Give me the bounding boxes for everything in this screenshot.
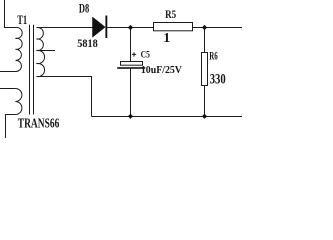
resistor R5 body xyxy=(154,23,193,31)
wire primary-1 top lead xyxy=(5,0,16,28)
capacitor C5 negative plate xyxy=(117,67,145,69)
svg-text:TRANS66: TRANS66 xyxy=(18,117,60,132)
wire R5 right side to R6 node and rail end xyxy=(193,27,242,29)
svg-text:T1: T1 xyxy=(17,13,27,27)
transformer T1 primary winding 1 xyxy=(16,27,23,71)
wire primary-2 top lead xyxy=(0,88,15,90)
capacitor C5 positive plate xyxy=(121,62,143,66)
wire secondary top lead to diode anode xyxy=(37,27,93,29)
label plus sign C5 polarity xyxy=(132,52,136,56)
transformer T1 primary winding 2 xyxy=(15,89,22,115)
junction dot R6 bottom node xyxy=(202,114,207,119)
junction dot R6 top node xyxy=(202,25,207,30)
svg-text:R6: R6 xyxy=(209,49,218,63)
wire ground rail bottom xyxy=(92,116,243,118)
wire C5 bottom lead xyxy=(130,69,132,117)
diode D8 triangle xyxy=(93,17,106,37)
junction dot C5 bottom node xyxy=(128,114,133,119)
wire R6 top lead xyxy=(204,28,206,53)
wire secondary center tap stub xyxy=(37,50,56,52)
svg-text:1: 1 xyxy=(163,31,170,46)
svg-text:R5: R5 xyxy=(165,7,176,21)
transformer core line left xyxy=(29,25,31,115)
wire secondary bottom lead down to ground rail xyxy=(37,77,92,117)
wire R6 bottom lead xyxy=(204,86,206,117)
transformer T1 secondary winding xyxy=(37,27,45,76)
svg-text:5818: 5818 xyxy=(77,38,98,50)
svg-text:10uF/25V: 10uF/25V xyxy=(141,64,182,76)
wire C5 top lead xyxy=(130,28,132,62)
junction dot node A (C5 top) xyxy=(128,25,133,30)
svg-text:C5: C5 xyxy=(141,51,150,61)
diode D8 cathode bar xyxy=(105,16,107,39)
svg-text:D8: D8 xyxy=(79,2,89,16)
wire primary-2 bottom lead xyxy=(6,115,16,139)
wire diode cathode to node A xyxy=(107,27,153,29)
resistor R6 body xyxy=(202,53,208,86)
wire primary-1 bottom lead xyxy=(0,71,16,73)
transformer core line right xyxy=(33,25,35,115)
svg-text:330: 330 xyxy=(210,72,226,88)
